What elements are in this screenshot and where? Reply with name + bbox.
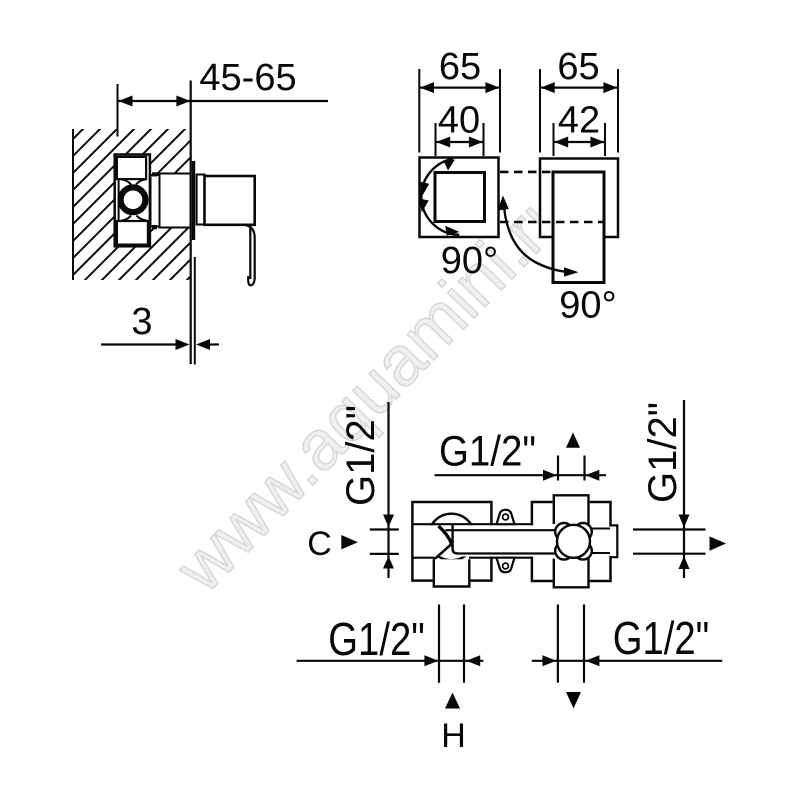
waterway line to left port corner	[434, 544, 452, 560]
cartridge circle top view	[428, 514, 475, 561]
clip top	[152, 172, 157, 176]
right block bottom port	[553, 561, 590, 587]
right arrow	[710, 536, 727, 550]
svg-text:40: 40	[438, 100, 480, 142]
divertor clover	[555, 523, 573, 541]
bracket ear top	[497, 510, 515, 524]
rotation arc	[421, 159, 459, 235]
chamber-to-ring fillets	[121, 179, 148, 221]
spout pipe fill	[453, 525, 557, 556]
waterway S-curve	[439, 526, 452, 544]
wall surface line	[190, 81, 192, 365]
wall left edge	[72, 129, 74, 280]
dashed projection lines	[500, 171, 604, 174]
top chamber	[117, 157, 146, 179]
body inner left line	[118, 156, 120, 245]
pipe inner bottom line	[458, 552, 556, 554]
passage lines to right port	[589, 528, 610, 530]
waterway band	[414, 525, 556, 556]
up solid triangle top	[566, 432, 580, 447]
bracket ear bottom	[497, 558, 515, 573]
down arrow right	[566, 692, 581, 709]
left block bottom port	[433, 559, 471, 585]
right extension lines	[633, 528, 706, 530]
handle lever	[244, 225, 255, 285]
band bottom line right	[469, 557, 556, 559]
left block (top view)	[412, 502, 491, 581]
right dimension vertical line	[683, 400, 685, 578]
svg-text:G1/2": G1/2"	[439, 428, 536, 476]
top dimension line	[435, 474, 607, 476]
svg-text:G1/2": G1/2"	[641, 402, 685, 503]
right block side port	[609, 527, 618, 556]
svg-text:C: C	[307, 525, 332, 563]
bottom dimension right	[532, 660, 723, 662]
watermark www.aquamini.ru	[160, 169, 587, 607]
valve body (side view)	[115, 155, 150, 247]
dimension 40	[435, 123, 437, 156]
clip bottom	[152, 225, 157, 229]
svg-text:G1/2": G1/2"	[328, 613, 425, 665]
trim ring	[197, 175, 205, 225]
valve cartridge ring	[120, 187, 146, 213]
bottom chamber	[117, 221, 148, 245]
svg-text:H: H	[441, 717, 466, 755]
front view: inner square (valve 40)	[435, 173, 485, 222]
spout pipe left edge	[453, 524, 458, 553]
stem housing inner	[151, 175, 160, 227]
C arrow	[341, 535, 358, 549]
wall hatching	[40, 0, 475, 427]
handle front view	[553, 172, 604, 283]
handle body (side view)	[205, 176, 255, 225]
waterway line to right	[452, 546, 464, 556]
plate extension line	[194, 257, 196, 365]
bottom dimension extension lines	[438, 605, 440, 683]
right block top port	[553, 497, 590, 522]
svg-text:3: 3	[131, 301, 152, 343]
dimension 65 left	[418, 69, 420, 153]
dimension 65 right	[539, 69, 541, 153]
stem housing outer	[160, 174, 191, 228]
svg-text:G1/2": G1/2"	[613, 612, 710, 664]
C dimension vertical line	[387, 402, 389, 578]
band bottom line left	[412, 557, 434, 559]
band top line	[412, 523, 554, 525]
pipe inner top line	[446, 529, 557, 531]
rotated G1/2 right	[641, 402, 685, 503]
H arrow up	[445, 693, 460, 709]
rotated G1/2 left	[339, 405, 383, 506]
svg-text:65: 65	[557, 46, 599, 88]
front view: outer square left	[420, 158, 499, 238]
svg-text:42: 42	[558, 100, 600, 142]
svg-text:G1/2": G1/2"	[339, 405, 383, 506]
svg-text:45-65: 45-65	[199, 57, 296, 99]
svg-text:90°: 90°	[441, 240, 498, 282]
escutcheon plate	[192, 161, 195, 240]
front view: outer square right	[540, 159, 618, 238]
dimension 3	[101, 343, 178, 345]
svg-text:90°: 90°	[559, 285, 616, 327]
rotation arrowheads	[444, 160, 456, 171]
dimension 45-65	[117, 84, 119, 137]
right block (top view)	[532, 502, 611, 581]
dimension 42	[553, 123, 555, 156]
svg-text:65: 65	[439, 46, 481, 88]
bottom dimension left	[297, 660, 484, 662]
curved rotation arrow	[504, 200, 575, 272]
